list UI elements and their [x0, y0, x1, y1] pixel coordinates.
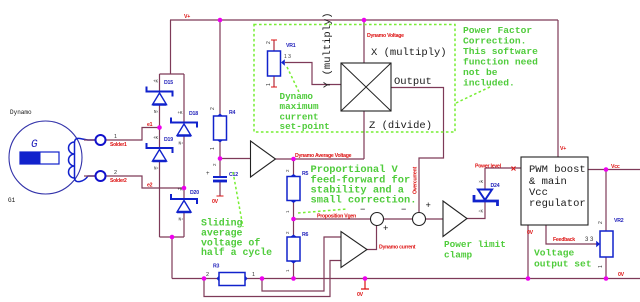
wire V+ top rail [170, 19, 558, 21]
label Dynamo [10, 109, 32, 116]
label D18 [189, 111, 198, 117]
svg-text:+K: +K [153, 81, 159, 85]
wire bridge bottom bus [160, 237, 220, 279]
dynamo coil [69, 138, 96, 181]
wire node to opamp U1 input [220, 158, 251, 160]
label R5 [302, 171, 309, 177]
svg-text:half a cycle: half a cycle [201, 247, 272, 258]
svg-text:Correction.: Correction. [463, 36, 526, 47]
svg-text:set-point: set-point [280, 121, 330, 132]
svg-text:e2: e2 [147, 183, 153, 189]
pin 1 of R4 [210, 147, 216, 150]
wire V+ left drop to bridge [160, 20, 185, 74]
pin marks D18 [178, 112, 184, 147]
note power factor correction [463, 25, 538, 89]
pin 2 of VR2 [598, 221, 604, 224]
svg-text:included.: included. [463, 78, 515, 89]
green leader to sliding text [233, 172, 243, 227]
svg-text:Dynamo Voltage: Dynamo Voltage [367, 33, 404, 39]
wire S2 to opamp U3 [426, 218, 444, 220]
net label Dynamo Voltage [367, 33, 404, 39]
svg-text:Dynamo: Dynamo [10, 109, 32, 116]
wire Vcc to VR2 [605, 170, 607, 232]
resistor R6 [287, 235, 300, 264]
note proportional V feed-forward [311, 164, 417, 207]
capacitor C12 [213, 177, 227, 181]
op-amp U2 dynamo current amp [341, 232, 367, 268]
label D19 [164, 137, 173, 143]
note power limit clamp [444, 239, 506, 261]
pin 1 bottom of R6 [285, 269, 290, 272]
note dynamo maximum current set-point [280, 91, 330, 132]
label D20 [190, 190, 199, 196]
label VR1 [286, 43, 296, 49]
svg-text:Feedback: Feedback [553, 237, 575, 243]
svg-text:G1: G1 [8, 197, 16, 204]
svg-text:1: 1 [266, 83, 272, 86]
wire S1 to S2 [384, 218, 413, 220]
label R3 [213, 264, 220, 270]
svg-text:Voltage: Voltage [534, 248, 575, 259]
wire V+ to R4 [219, 20, 221, 116]
label C12 [229, 172, 238, 178]
pin 2 of R4 [210, 107, 216, 110]
net label Vcc [611, 164, 620, 170]
label D15 [164, 80, 173, 86]
svg-text:D24: D24 [491, 183, 500, 189]
svg-text:+: + [426, 201, 431, 211]
wire D20 cathode lead [183, 188, 185, 199]
svg-text:Z (divide): Z (divide) [369, 120, 432, 132]
svg-text:clamp: clamp [444, 250, 473, 261]
wire multiplier output to overcurrent node [391, 88, 444, 213]
svg-text:VR2: VR2 [614, 218, 624, 224]
pin 1 of R3 [252, 272, 255, 278]
net label Solder1 [110, 142, 127, 148]
pin marks D15 [153, 81, 159, 116]
wire U2 output to S1 plus input [367, 226, 377, 250]
op-amp U1 average voltage buffer [251, 141, 276, 177]
svg-text:Proposition Vgen: Proposition Vgen [317, 214, 356, 220]
svg-text:e1: e1 [147, 122, 153, 128]
svg-text:2: 2 [206, 272, 209, 278]
wire R6 to 0V rail [293, 261, 295, 279]
svg-text:0V: 0V [618, 272, 625, 278]
net label 0V right [618, 272, 625, 278]
svg-text:D19: D19 [164, 137, 173, 143]
svg-text:X (multiply): X (multiply) [371, 47, 447, 59]
svg-text:Overcurrent: Overcurrent [413, 167, 419, 194]
svg-text:1: 1 [210, 147, 216, 150]
svg-text:2: 2 [266, 41, 272, 44]
zener diode D24 [474, 190, 498, 207]
wire U1 output to Z node [276, 158, 365, 160]
svg-text:+K: +K [178, 112, 184, 116]
wire multiplier X input from V+ rail [363, 20, 365, 63]
svg-text:Y (multiply): Y (multiply) [322, 12, 334, 88]
svg-text:Dynamo Average Voltage: Dynamo Average Voltage [295, 153, 352, 159]
svg-text:+K: +K [153, 137, 159, 141]
pin 1 of VR1 [266, 83, 272, 86]
svg-text:V+: V+ [184, 14, 190, 20]
potentiometer VR1 [268, 51, 285, 76]
svg-text:VR1: VR1 [286, 43, 296, 49]
pin marks D19 [153, 137, 159, 172]
wire dynamo to terminal1 [84, 139, 95, 141]
svg-text:D20: D20 [190, 190, 199, 196]
wire VR2 bottom to 0V rail [605, 257, 607, 279]
svg-text:R3: R3 [213, 264, 220, 270]
wire node to R5 [293, 159, 295, 176]
svg-text:−: − [360, 205, 365, 215]
pins 1 3 of VR1 wiper [284, 54, 291, 60]
label R4 [229, 110, 236, 116]
wire VR1 bottom stub [273, 76, 275, 87]
svg-text:3 3: 3 3 [585, 237, 594, 243]
svg-text:−: − [401, 205, 406, 215]
0V marker at C12 [217, 195, 224, 197]
red pin tick at PWM power input [512, 167, 516, 171]
pin marks D24 [478, 180, 484, 215]
net label Power level [475, 164, 502, 170]
wire VR1 top stub [273, 40, 275, 51]
pin 2 of VR1 [266, 41, 272, 44]
wire VR1 wiper to multiplier Y input [285, 63, 341, 85]
svg-text:Solder2: Solder2 [110, 178, 127, 184]
wire D19 cathode lead [159, 128, 161, 149]
wire D18 anode lead [183, 136, 185, 188]
label D24 [491, 183, 500, 189]
svg-text:G: G [31, 139, 38, 151]
net label e1 [147, 122, 153, 128]
summer S2 [401, 201, 431, 226]
svg-text:D15: D15 [164, 80, 173, 86]
label Y (multiply) [322, 12, 334, 88]
label R6 [302, 232, 309, 238]
wire 0V rail right of R3 [245, 278, 640, 280]
svg-text:N‹: N‹ [154, 110, 159, 115]
svg-text:0V: 0V [212, 199, 219, 205]
wire Vgen node to summer S1 [294, 218, 371, 220]
terminal 1 [96, 135, 106, 145]
wire dynamo to terminal2 [84, 175, 95, 177]
net label Overcurrent [413, 167, 419, 194]
pin marks D20 [178, 189, 184, 223]
resistor R5 [287, 174, 300, 203]
svg-text:D18: D18 [189, 111, 198, 117]
label Z (divide) [369, 120, 432, 132]
wire PWM 0V to rail [527, 225, 529, 279]
svg-text:2: 2 [114, 170, 117, 176]
value 3 3 [585, 237, 594, 243]
svg-text:+: + [383, 224, 388, 234]
net label e2 [147, 183, 153, 189]
potentiometer VR2 [596, 231, 613, 257]
svg-text:output set: output set [534, 259, 592, 270]
dynamo G1 body [9, 121, 82, 194]
net label Proposition Vgen [317, 214, 356, 220]
svg-text:R5: R5 [302, 171, 309, 177]
svg-text:N‹: N‹ [179, 218, 184, 223]
svg-text:regulator: regulator [529, 198, 586, 210]
net label Solder2 [110, 178, 127, 184]
wire multiplier Z riser [363, 111, 365, 159]
green leader to proportional text [298, 209, 347, 213]
diode D19 [147, 143, 173, 161]
svg-text:small correction.: small correction. [311, 195, 417, 207]
svg-text:Output: Output [394, 76, 432, 88]
note voltage output set [534, 248, 592, 270]
green dashed software box [254, 25, 455, 133]
svg-text:Power level: Power level [475, 164, 502, 170]
svg-text:+: + [206, 171, 210, 177]
red tick VR1 top [271, 39, 277, 41]
net label Dynamo current [379, 245, 416, 251]
svg-text:1: 1 [252, 272, 255, 278]
note sliding average voltage of half a cycle [201, 218, 272, 259]
svg-text:V+: V+ [560, 146, 566, 152]
pin 2 top of R6 [285, 231, 290, 234]
label G1 [8, 197, 16, 204]
wire D19 anode lead down [159, 162, 161, 238]
svg-text:1: 1 [114, 134, 117, 140]
wire D24 to power level line [485, 168, 521, 190]
svg-text:Dynamo current: Dynamo current [379, 245, 416, 251]
op-amp U3 power limit clamp [443, 201, 467, 237]
wire C12 bottom stub [219, 182, 221, 197]
diode D20 [171, 194, 197, 212]
svg-text:1 3: 1 3 [284, 54, 291, 60]
pin 2 label [114, 170, 117, 176]
svg-text:This software: This software [463, 46, 538, 57]
wire V+ drop to PWM box [557, 20, 559, 157]
net label Feedback [553, 237, 575, 243]
multiplier U2 box [341, 63, 391, 111]
svg-text:not be: not be [463, 67, 498, 78]
pin 2 of R3 [206, 272, 209, 278]
wire R4 to C12 node [219, 140, 221, 176]
svg-text:0V: 0V [527, 230, 534, 236]
diode D15 [147, 87, 173, 105]
svg-text:Power limit: Power limit [444, 239, 506, 250]
wire PWM feedback to VR2 wiper [546, 225, 597, 244]
svg-text:›K: ›K [478, 180, 484, 185]
svg-text:R6: R6 [302, 232, 309, 238]
svg-text:2: 2 [598, 221, 604, 224]
svg-text:function need: function need [463, 57, 538, 68]
svg-text:Solder1: Solder1 [110, 142, 127, 148]
svg-text:R4: R4 [229, 110, 236, 116]
svg-text:Vcc: Vcc [611, 164, 620, 170]
0V stub mid rail [361, 279, 369, 290]
red tick VR1 bottom [271, 86, 277, 88]
PWM boost block U4 [521, 157, 588, 225]
svg-text:PWM boost: PWM boost [529, 164, 586, 176]
plus mark C12 [206, 171, 210, 177]
pin 1 label [114, 134, 117, 140]
label Output [394, 76, 432, 88]
wire D18 cathode lead [183, 74, 185, 122]
pin 1 of VR2 [598, 265, 604, 268]
svg-text:maximum: maximum [280, 101, 319, 112]
pin 2 at U1 input wire [212, 163, 217, 166]
svg-text:‹K: ‹K [478, 210, 484, 215]
pin 2 top of R5 [285, 169, 290, 172]
wire terminal2 to node e2 [106, 176, 184, 188]
wire terminal1 to node e1 [106, 128, 160, 141]
net label V+ top [184, 14, 190, 20]
net label V+ at PWM [560, 146, 566, 152]
net label 0V at PWM [527, 230, 534, 236]
label X (multiply) [371, 47, 447, 59]
wire PWM Vcc output [588, 169, 640, 171]
terminal 2 [96, 171, 106, 181]
svg-text:0V: 0V [357, 292, 364, 298]
svg-text:N‹: N‹ [179, 142, 184, 147]
svg-text:1: 1 [598, 265, 604, 268]
green leader to VR1 [287, 67, 299, 92]
wire U3 output to D24 [467, 201, 485, 219]
wire D15 cathode lead [159, 74, 161, 91]
label VR2 [614, 218, 624, 224]
resistor R3 shunt [217, 273, 248, 286]
wire R5 to R6 through Vgen node [293, 201, 295, 238]
svg-text:2: 2 [210, 107, 216, 110]
summer S1 [360, 205, 388, 234]
net label Dynamo Average Voltage [295, 153, 352, 159]
green leader to PFC text [456, 86, 492, 103]
pin 1 bottom of R5 [285, 210, 290, 213]
diode D18 [171, 118, 197, 136]
resistor R4 [214, 114, 227, 143]
wire D20 anode lead [183, 213, 185, 238]
wire R3 sense upper (pin1 to opamp +) [262, 237, 341, 291]
wire R3 sense lower (pin2 to opamp -) [204, 261, 341, 297]
svg-text:N‹: N‹ [154, 167, 159, 172]
svg-text:Power Factor: Power Factor [463, 25, 532, 36]
wire D15 anode to node e1 [159, 105, 161, 128]
